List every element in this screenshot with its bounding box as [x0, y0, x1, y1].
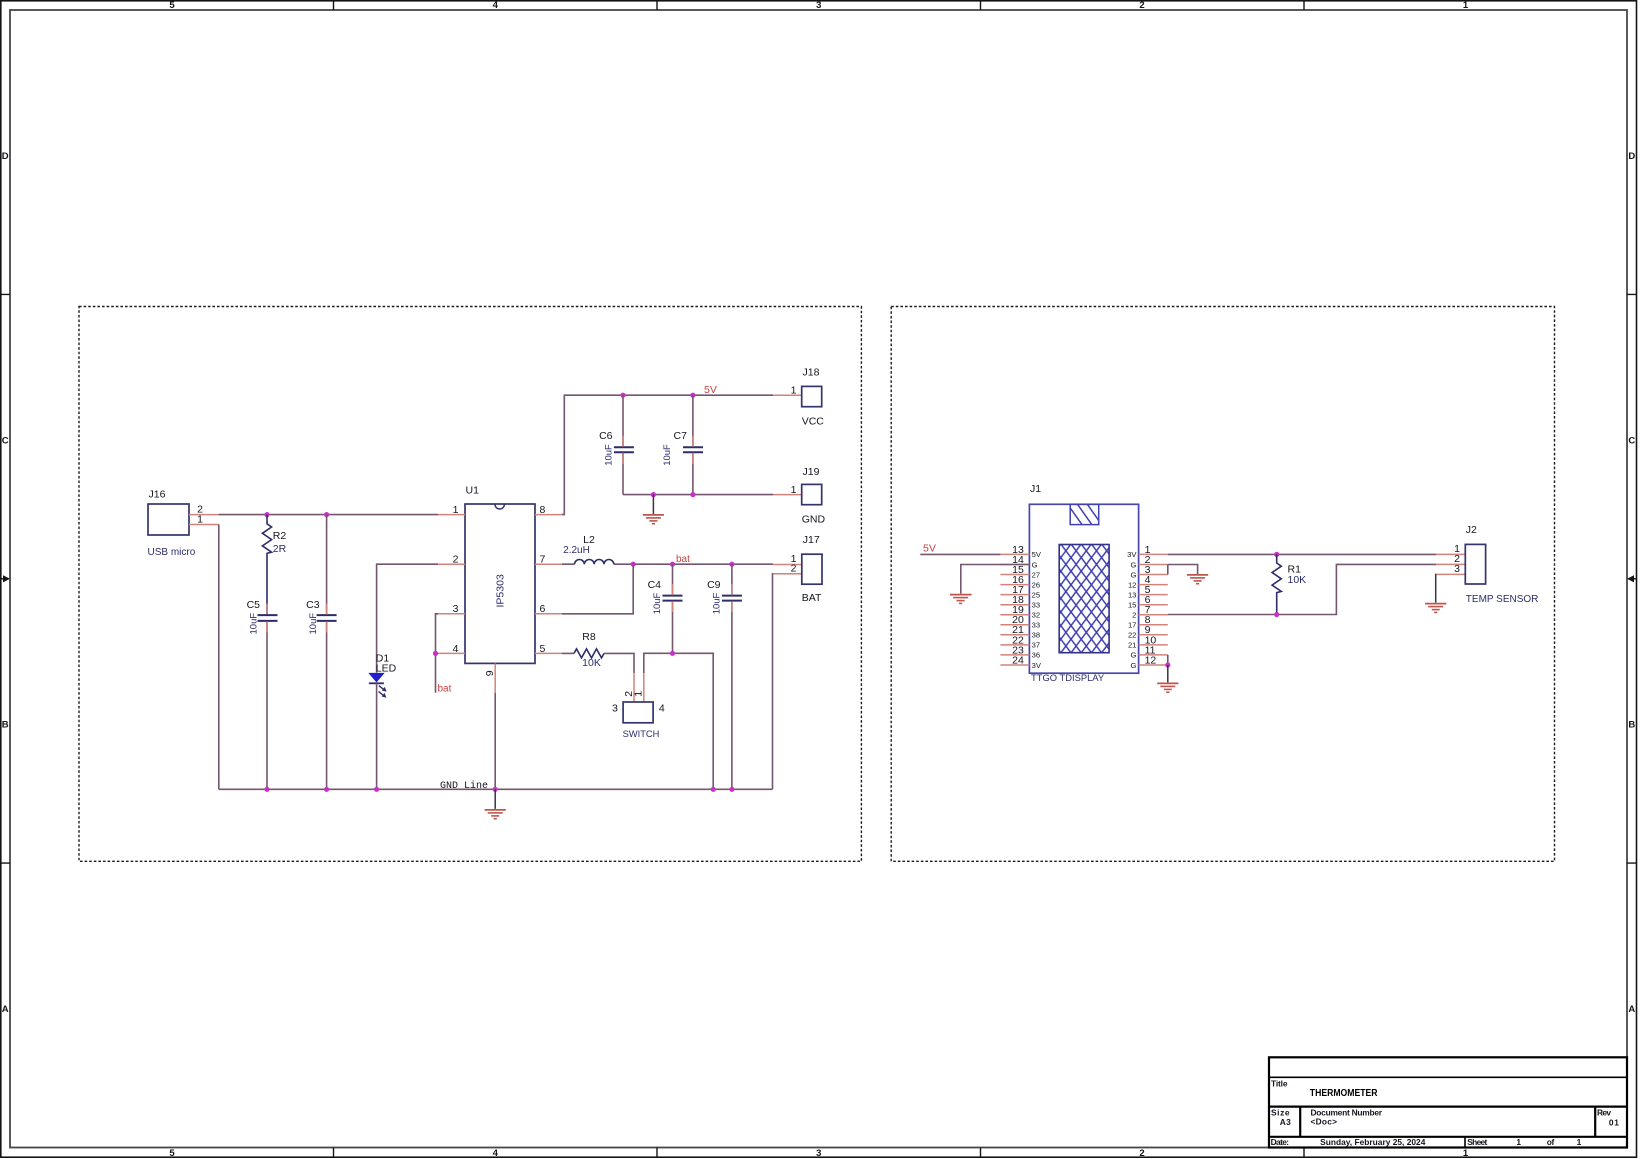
zone ticks bottom [334, 1148, 1305, 1159]
junction [324, 787, 329, 792]
svg-text:G: G [1032, 560, 1038, 569]
junction [374, 787, 379, 792]
svg-text:5V: 5V [1032, 550, 1042, 559]
inductor L2 [562, 560, 633, 565]
svg-text:24: 24 [1012, 654, 1024, 666]
junction [729, 787, 734, 792]
module J1 TTGO T-DISPLAY [1029, 504, 1138, 673]
J1 display crosshatched [1059, 545, 1109, 653]
wire LED cathode to GND line [376, 683, 378, 789]
svg-text:17: 17 [1128, 621, 1136, 630]
svg-text:1: 1 [791, 385, 797, 397]
pin stub J2 pin2 [1436, 563, 1465, 565]
svg-text:USB micro: USB micro [148, 547, 196, 558]
svg-text:3: 3 [1454, 563, 1460, 575]
wire switch pin1 to C4 and down to GND line [644, 653, 713, 789]
wire J1 pin7 to J2 pin2 [1168, 564, 1436, 614]
junction [651, 492, 656, 497]
svg-text:2.2uH: 2.2uH [563, 545, 590, 556]
pin stub U1 pin5 [535, 652, 562, 654]
svg-text:R8: R8 [582, 631, 596, 643]
wire J16 pin1 down to GND line [218, 525, 220, 790]
junction [1274, 552, 1279, 557]
pin stub J18 pin1 [773, 394, 802, 396]
C6 top lead [622, 395, 624, 447]
svg-text:IP5303: IP5303 [495, 574, 507, 607]
svg-text:1: 1 [1463, 1148, 1469, 1159]
title block texts [1271, 1078, 1620, 1147]
svg-text:TEMP SENSOR: TEMP SENSOR [1466, 594, 1539, 605]
svg-text:32: 32 [1032, 611, 1040, 620]
svg-text:J1: J1 [1030, 483, 1041, 495]
zone ticks top [334, 0, 1305, 10]
junction [493, 787, 498, 792]
pin stub J16 pin1 [189, 524, 219, 526]
TITLE BLOCK [1269, 1057, 1627, 1147]
zone labels right [1628, 151, 1635, 1015]
svg-text:J2: J2 [1466, 524, 1477, 536]
capacitor C3 [317, 615, 337, 621]
svg-text:10uF: 10uF [712, 592, 723, 614]
svg-text:C3: C3 [306, 599, 320, 611]
svg-text:C9: C9 [707, 579, 721, 591]
pin stub U1 pin6 [535, 613, 562, 615]
pin stub U1 pin4 [438, 652, 465, 654]
svg-text:GND: GND [802, 513, 826, 525]
svg-text:1: 1 [633, 691, 645, 697]
wire pin12 down to ground [1167, 665, 1169, 682]
connector J16 USB micro [148, 504, 189, 535]
svg-text:Date:: Date: [1271, 1137, 1290, 1147]
svg-text:SWITCH: SWITCH [623, 729, 660, 739]
svg-text:12: 12 [1145, 654, 1157, 666]
svg-text:10K: 10K [1288, 574, 1307, 586]
junction [690, 492, 695, 497]
svg-text:25: 25 [1032, 590, 1040, 599]
svg-text:2R: 2R [273, 543, 287, 555]
capacitor C5 [258, 615, 278, 621]
svg-text:3: 3 [816, 0, 821, 11]
svg-text:37: 37 [1032, 641, 1040, 650]
svg-text:3: 3 [612, 702, 618, 714]
svg-text:12: 12 [1128, 580, 1136, 589]
wire J16 pin2 to U1 pin1 [219, 514, 438, 516]
svg-text:15: 15 [1128, 601, 1136, 610]
junction [1274, 612, 1279, 617]
svg-text:D: D [2, 151, 9, 162]
svg-text:A3: A3 [1280, 1117, 1291, 1127]
svg-text:1: 1 [1516, 1137, 1521, 1147]
svg-text:01: 01 [1609, 1117, 1619, 1127]
svg-text:22: 22 [1128, 631, 1136, 640]
junction [324, 512, 329, 517]
svg-text:R2: R2 [273, 530, 287, 542]
svg-text:6: 6 [540, 603, 546, 615]
svg-text:5V: 5V [704, 384, 717, 396]
wire U1 pin9 to GND line [494, 693, 496, 789]
C9 bottom lead to GND line [731, 601, 733, 790]
svg-text:G: G [1130, 661, 1136, 670]
zone labels bottom [169, 1148, 1469, 1159]
centre arrow left [0, 575, 10, 582]
svg-text:Size: Size [1271, 1107, 1290, 1117]
svg-text:3V: 3V [1032, 661, 1042, 670]
svg-text:G: G [1130, 651, 1136, 660]
svg-text:3: 3 [816, 1148, 821, 1159]
zone labels top [169, 0, 1469, 11]
ground symbol below J2 pin3 [1425, 604, 1446, 613]
svg-text:D: D [1628, 151, 1635, 162]
J1 right pin numbers 1-12 [1145, 544, 1157, 667]
pin stub J17 pin1 [773, 564, 802, 566]
C5 bottom lead wire [266, 621, 268, 789]
svg-text:VCC: VCC [802, 415, 825, 427]
junction [1165, 662, 1170, 667]
connector J17 [802, 554, 822, 584]
resistor R8 [562, 649, 604, 658]
svg-text:Rev: Rev [1597, 1107, 1611, 1117]
connector J2 TEMP SENSOR [1465, 544, 1485, 584]
pin stub U1 pin3 [438, 613, 465, 615]
capacitor C6 [614, 447, 634, 452]
wire junction down to U1 pin6 [562, 564, 633, 614]
resistor R2 [262, 515, 271, 616]
U1 notch [495, 504, 504, 509]
C7 bottom lead [692, 452, 694, 494]
C6 bottom lead [622, 452, 624, 494]
svg-text:bat: bat [676, 554, 690, 565]
svg-text:BAT: BAT [802, 592, 822, 604]
J1 right pin names [1127, 550, 1137, 670]
right circuit block dashed border [891, 307, 1554, 862]
svg-text:TTGO TDISPLAY: TTGO TDISPLAY [1031, 672, 1105, 683]
J1 left pin stubs 13-24 [1000, 554, 1029, 665]
pin stub SW pin2 [633, 673, 635, 702]
svg-text:4: 4 [453, 643, 459, 655]
svg-text:13: 13 [1128, 590, 1136, 599]
svg-text:33: 33 [1032, 621, 1040, 630]
C7 top lead [692, 395, 694, 447]
wire U1 pin2 to LED [377, 564, 438, 673]
ground symbol below pin12 [1157, 683, 1178, 692]
wire J1 pin14 to ground [961, 565, 1030, 594]
connector J19 [802, 484, 822, 504]
svg-text:36: 36 [1032, 651, 1040, 660]
wire J1 pins2-3 to ground [1168, 565, 1198, 575]
wire GND line [219, 788, 773, 790]
svg-text:5V: 5V [923, 543, 936, 555]
J1 left pin names [1032, 550, 1042, 670]
svg-text:3V: 3V [1127, 550, 1137, 559]
svg-text:G: G [1130, 570, 1136, 579]
J1 left pin numbers 13-24 [1012, 544, 1024, 667]
svg-text:27: 27 [1032, 570, 1040, 579]
wire U1 pin3 to pin4 (bat net) [436, 614, 439, 693]
svg-text:1: 1 [453, 504, 459, 516]
junction [670, 651, 675, 656]
wire J1 pin1 to J2 pin1 [1168, 553, 1436, 555]
wire J17 pin2 down to GND line [772, 574, 775, 790]
wire J2 pin3 down to ground [1435, 574, 1437, 602]
svg-text:J18: J18 [803, 367, 820, 379]
svg-text:2: 2 [1139, 1148, 1144, 1159]
svg-text:J19: J19 [803, 466, 820, 478]
svg-text:4: 4 [659, 702, 665, 714]
svg-text:21: 21 [1128, 641, 1136, 650]
svg-text:5: 5 [169, 1148, 175, 1159]
capacitor C4 [663, 596, 683, 601]
svg-text:THERMOMETER: THERMOMETER [1310, 1088, 1378, 1099]
svg-text:L2: L2 [583, 534, 595, 546]
junction [670, 562, 675, 567]
svg-text:LED: LED [376, 663, 397, 675]
pin stub U1 pin1 [438, 514, 465, 516]
svg-text:Sheet: Sheet [1467, 1137, 1487, 1147]
wire R8 to switch pin2 [604, 653, 634, 673]
junction [690, 393, 695, 398]
pin stub J2 pin3 [1436, 573, 1465, 575]
pin stub U1 pin9 [494, 663, 496, 693]
svg-text:26: 26 [1032, 580, 1040, 589]
C3 top lead wire [326, 515, 328, 615]
svg-text:G: G [1130, 560, 1136, 569]
junction [729, 562, 734, 567]
svg-text:3: 3 [453, 603, 459, 615]
junction [620, 393, 625, 398]
svg-text:1: 1 [791, 484, 797, 496]
svg-text:10uF: 10uF [604, 444, 615, 466]
C9 top lead [731, 564, 733, 595]
J1 usb notch hatched [1070, 504, 1099, 524]
pin stub J19 pin1 [773, 494, 802, 496]
svg-text:of: of [1547, 1137, 1555, 1147]
svg-text:bat: bat [438, 683, 452, 694]
svg-text:C: C [1628, 435, 1635, 446]
J1 right pin stubs 1-12 [1139, 554, 1168, 665]
IC U1 IP5303 [465, 504, 535, 663]
pin stub U1 pin8 [535, 514, 562, 516]
pin stub SW pin1 [643, 673, 645, 702]
svg-text:J16: J16 [149, 489, 166, 501]
svg-text:C4: C4 [648, 579, 662, 591]
LED D1 [368, 673, 386, 698]
junction [264, 512, 269, 517]
svg-text:GND Line: GND Line [440, 780, 488, 792]
centre arrow right [1627, 575, 1637, 582]
wire 5V into J1 pin13 [920, 553, 1000, 555]
svg-text:C: C [2, 435, 9, 446]
svg-text:2: 2 [1139, 0, 1144, 11]
svg-text:33: 33 [1032, 601, 1040, 610]
svg-text:2: 2 [453, 554, 459, 566]
svg-text:10K: 10K [582, 657, 601, 669]
capacitor C7 [683, 447, 703, 452]
svg-text:2: 2 [1132, 611, 1136, 620]
C3 bottom lead wire [326, 621, 328, 789]
svg-text:10uF: 10uF [249, 613, 260, 635]
svg-text:J17: J17 [803, 534, 820, 546]
C4 top lead [672, 564, 674, 595]
wire L2 to J17 pin1 (bat net) [633, 563, 773, 565]
svg-text:1: 1 [1577, 1137, 1582, 1147]
junction [433, 651, 438, 656]
svg-text:10uF: 10uF [652, 592, 663, 614]
capacitor C9 [722, 596, 742, 601]
svg-text:A: A [1628, 1004, 1635, 1015]
svg-text:A: A [2, 1004, 9, 1015]
svg-text:C7: C7 [674, 430, 688, 442]
svg-text:2: 2 [791, 563, 797, 575]
pin stub U1 pin7 [535, 563, 562, 565]
svg-text:5: 5 [169, 0, 175, 11]
pin stub J16 pin2 [189, 514, 219, 516]
wire C6 C7 bottoms to J19 (gnd) [623, 494, 773, 496]
svg-text:4: 4 [493, 1148, 499, 1159]
junction [631, 562, 636, 567]
svg-text:Title: Title [1271, 1078, 1288, 1088]
zone labels left [2, 151, 9, 1015]
wire J1 pins11-12 joined [1167, 655, 1169, 665]
svg-text:8: 8 [540, 504, 546, 516]
svg-text:4: 4 [493, 0, 499, 11]
svg-text:7: 7 [540, 554, 546, 566]
C4 bottom lead [672, 601, 674, 654]
zone ticks right [1627, 294, 1637, 863]
switch SW1 [623, 702, 653, 723]
svg-text:U1: U1 [466, 485, 480, 497]
svg-text:5: 5 [540, 643, 546, 655]
svg-text:C5: C5 [247, 599, 261, 611]
svg-text:C6: C6 [599, 430, 613, 442]
ground symbol below C6/C7 wire [643, 495, 664, 524]
junction [711, 787, 716, 792]
ground symbol at GND line [485, 789, 506, 818]
connector J18 [802, 386, 822, 406]
resistor R1 [1272, 554, 1281, 614]
pin stub J2 pin1 [1436, 553, 1465, 555]
svg-text:1: 1 [1463, 0, 1469, 11]
svg-text:9: 9 [484, 670, 496, 676]
svg-text:<Doc>: <Doc> [1311, 1117, 1338, 1127]
ground symbol right of pin3 [1187, 575, 1208, 584]
pin stub J17 pin2 [773, 573, 802, 575]
svg-text:Sunday, February 25, 2024: Sunday, February 25, 2024 [1320, 1137, 1426, 1147]
wire U1 pin8 up and right (5V net) [562, 395, 773, 514]
zone ticks left [0, 294, 10, 863]
left circuit block dashed border [79, 307, 861, 862]
svg-text:38: 38 [1032, 631, 1040, 640]
svg-text:B: B [2, 720, 9, 731]
junction [264, 787, 269, 792]
pin stub U1 pin2 [438, 563, 465, 565]
ground symbol below pin14 [950, 595, 972, 604]
capacitor pin stubs [267, 436, 732, 633]
svg-text:B: B [1628, 720, 1635, 731]
svg-text:10uF: 10uF [662, 444, 673, 466]
svg-text:10uF: 10uF [308, 613, 319, 635]
